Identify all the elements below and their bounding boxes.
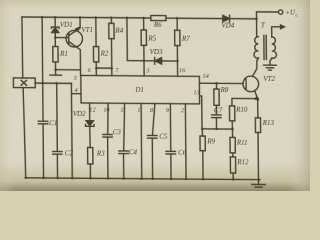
junction (42.8,178.8) <box>42 177 45 180</box>
capacitor C7 <box>212 114 221 116</box>
svg-text:10: 10 <box>103 107 109 113</box>
wire: emitter node left to R10 <box>232 98 258 106</box>
wire: rail R6 to R7 tap <box>166 17 177 19</box>
svg-text:R13: R13 <box>262 119 275 127</box>
resistor R10 <box>229 106 234 121</box>
wire: IC pin 12 down <box>89 103 91 120</box>
capacitor C5 <box>148 134 157 136</box>
wire: collector down to pin 5 (IC corner) <box>79 70 81 76</box>
junction (42.8,18) <box>41 16 44 19</box>
junction (216.6,82.8) <box>215 82 218 85</box>
svg-text:R11: R11 <box>236 138 248 146</box>
wire: branch from rail to VD3 node <box>127 18 155 61</box>
junction (185.3,178.8) <box>185 178 188 181</box>
junction (232.4,178.8) <box>232 178 235 181</box>
wire: crystal bottom down to ground rail <box>23 88 26 178</box>
resistor R4 <box>109 23 114 38</box>
wire: right winding top to output arrow <box>272 27 281 37</box>
wire: IC pin 11 down <box>123 103 125 151</box>
svg-text:VD4: VD4 <box>221 22 234 30</box>
capacitor C4 <box>119 150 128 152</box>
svg-text:14: 14 <box>203 74 209 80</box>
svg-text:R6: R6 <box>153 21 162 29</box>
wire: VD1 branch from rail <box>54 17 56 26</box>
wire: VD4 to transformer junction <box>230 18 257 20</box>
junction (55.8,38.3) <box>54 36 57 39</box>
junction (56.8,84) <box>55 82 58 85</box>
transformer T left winding lead <box>256 19 258 37</box>
transformer T left winding <box>254 37 259 59</box>
resistor R3 <box>88 147 93 164</box>
capacitor stub below junction <box>55 70 57 75</box>
svg-text:C4: C4 <box>129 148 138 156</box>
wire: left winding to VT2 collector <box>257 58 259 61</box>
wire: VT1 base wire <box>55 37 69 39</box>
wire: R1 bottom to junction <box>55 62 57 70</box>
wire: IC pin 9 down <box>169 104 171 152</box>
svg-text:VT2: VT2 <box>263 75 275 83</box>
junction (71.5,178.8) <box>71 177 74 180</box>
svg-text:C7: C7 <box>214 107 223 115</box>
wire: crystal right side to pin-4 drop <box>35 82 71 84</box>
wire: C1 branch vertical (top rail to bottom rail) <box>41 17 44 121</box>
junction (170.3,178.8) <box>170 178 173 181</box>
wire: R4 branch <box>110 18 112 24</box>
junction (107.2,178.8) <box>107 177 110 180</box>
resistor R8 <box>215 83 217 89</box>
svg-text:R7: R7 <box>181 35 190 43</box>
wire: R7 branch <box>176 18 178 30</box>
junction (42.8,84) <box>41 82 44 85</box>
svg-text:12: 12 <box>89 108 95 114</box>
junction (89.7,178.8) <box>89 177 92 180</box>
diode VD4 <box>223 15 230 21</box>
capacitor C2 <box>53 151 62 153</box>
junction (127.6,18) <box>126 17 129 20</box>
crystal ZQ (box with X) <box>13 78 35 88</box>
wire: emitter node down to R13 <box>257 99 259 118</box>
svg-text:R3: R3 <box>96 149 105 157</box>
svg-text:5: 5 <box>74 76 77 82</box>
svg-text:VD1: VD1 <box>60 21 73 29</box>
junction (232.2,128.4) <box>231 128 234 131</box>
svg-text:4: 4 <box>75 88 78 94</box>
wire: up to +U terminal <box>256 12 278 19</box>
diode VD1 (zener, cathode bar top, triangle pointing up) <box>51 27 59 28</box>
collector lead up to transformer <box>252 61 257 77</box>
svg-text:VD2: VD2 <box>73 110 86 118</box>
resistor R11 <box>230 137 235 152</box>
svg-text:3: 3 <box>145 68 149 74</box>
junction (257.7,178.8) <box>257 178 260 181</box>
wire: pin 14 to VT2 base <box>199 82 243 84</box>
junction (55.8,70.4) <box>54 68 57 71</box>
resistor R5 <box>141 30 146 45</box>
junction (55.8,18) <box>54 16 57 19</box>
wire: pin-4 vertical down to bottom rail <box>70 83 73 178</box>
wire: R5 branch <box>143 18 145 30</box>
transformer T right winding <box>272 37 277 59</box>
paper background <box>0 0 310 191</box>
svg-text:R4: R4 <box>114 27 123 35</box>
svg-text:13: 13 <box>193 90 199 96</box>
junction (202.3,178.8) <box>202 178 205 181</box>
junction (25,178.8) <box>24 177 27 180</box>
svg-text:9: 9 <box>166 108 169 114</box>
wire: junction to collector node <box>56 69 81 71</box>
wire: IC pin 1 down <box>140 103 143 178</box>
svg-text:8: 8 <box>150 108 153 114</box>
wire: bottom ground rail <box>26 178 260 180</box>
junction (112,68.5) <box>111 67 114 70</box>
svg-text:VD3: VD3 <box>150 48 163 56</box>
wire: rail between R5 tap and R6 <box>144 17 151 19</box>
junction (80.7,18) <box>79 16 82 19</box>
wire: rail R7 tap to VD4 <box>177 17 223 19</box>
diode VD2 (zener, pointing down) <box>86 121 93 126</box>
junction (96.5,18) <box>95 16 98 19</box>
wire: R5 to pin 3 <box>143 45 145 76</box>
svg-text:C3: C3 <box>113 128 122 136</box>
terminal +Uc (open circle) <box>278 10 282 14</box>
junction (151.9,178.8) <box>151 178 154 181</box>
junction (141,178.8) <box>140 177 143 180</box>
junction (144.3,18) <box>142 17 145 20</box>
ground (transformer secondary) <box>264 64 277 66</box>
wire: top supply rail <box>22 16 144 19</box>
wire: C2 branch vertical <box>56 83 59 151</box>
wire: pin 13 down and right <box>200 96 233 129</box>
resistor R2 <box>93 47 98 62</box>
svg-text:R10: R10 <box>235 105 248 113</box>
junction (216.2,128.4) <box>215 128 218 131</box>
wire: link pins 6-7 <box>96 67 112 69</box>
svg-text:C5: C5 <box>159 132 168 140</box>
wire: right winding bottom to ground <box>270 58 272 65</box>
svg-text:R12: R12 <box>236 158 249 166</box>
junction (257.6,97.8) <box>256 97 259 100</box>
capacitor C1 <box>38 120 47 122</box>
resistor R13 <box>255 118 260 133</box>
capacitor C3 <box>103 134 112 136</box>
junction (96.5,68.5) <box>95 67 98 70</box>
resistor R7 <box>175 30 180 45</box>
svg-text:C1: C1 <box>49 119 57 127</box>
svg-text:R2: R2 <box>100 50 109 58</box>
svg-text:R9: R9 <box>206 137 215 145</box>
wire: left vertical from rail down to crystal <box>21 17 24 78</box>
transistor VT1 <box>66 30 83 47</box>
IC D1 <box>81 75 200 103</box>
svg-text:2: 2 <box>181 108 184 114</box>
svg-text:VT1: VT1 <box>81 26 93 34</box>
resistor R9 <box>201 129 203 136</box>
junction (257.2,18) <box>255 18 258 21</box>
wire: R4 to pin 7 <box>111 39 113 76</box>
capacitor C6 <box>166 150 175 152</box>
junction (201.9,128.4) <box>201 128 204 131</box>
diode VD3 (pointing left) <box>154 57 156 64</box>
junction (177.8,60.8) <box>176 60 179 63</box>
wire: R7 to pin 16 <box>176 46 178 77</box>
svg-text:C6: C6 <box>178 149 187 157</box>
wire: IC pin 10 down <box>106 103 109 134</box>
pin numbers <box>74 67 209 114</box>
svg-text:R5: R5 <box>147 34 156 42</box>
resistor R12 <box>230 157 235 173</box>
svg-text:C2: C2 <box>65 150 74 158</box>
resistor R1 <box>53 47 58 62</box>
junction (123,178.8) <box>122 177 125 180</box>
wire: IC pin 8 down <box>152 104 155 136</box>
emitter lead down <box>255 90 258 98</box>
junction (177.8,18) <box>176 17 179 20</box>
wire: pin 4 stub into IC <box>71 93 81 95</box>
wire: R2 branch <box>95 18 97 47</box>
junction (144.3,60.8) <box>143 59 146 62</box>
svg-text:11: 11 <box>120 108 126 114</box>
transistor VT2 <box>243 76 259 92</box>
junction (56.8,178.8) <box>56 177 59 180</box>
svg-text:1: 1 <box>137 108 140 114</box>
svg-text:R8: R8 <box>220 86 229 94</box>
svg-text:16: 16 <box>179 68 186 74</box>
svg-text:R1: R1 <box>59 50 68 58</box>
transformer core <box>263 35 265 59</box>
wire: IC pin 2 down <box>184 104 187 179</box>
ground (chassis, bottom right) <box>257 180 259 185</box>
svg-text:D1: D1 <box>134 86 144 94</box>
junction (112,18) <box>110 16 113 19</box>
resistor R6 (horizontal, in rail) <box>151 16 166 21</box>
